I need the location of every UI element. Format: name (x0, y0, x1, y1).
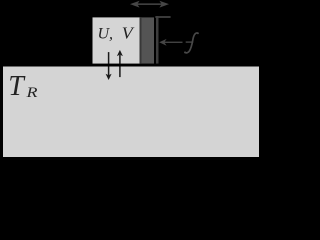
svg-text:U,: U, (98, 26, 114, 43)
svg-text:R: R (25, 85, 37, 101)
svg-text:T: T (8, 71, 26, 102)
